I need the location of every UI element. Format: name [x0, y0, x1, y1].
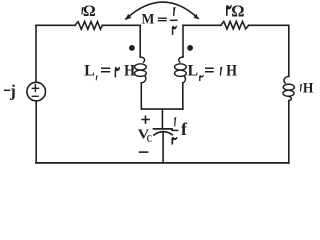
mutual coupling arc M — [126, 2, 198, 19]
wire top-left horizontal — [36, 24, 75, 26]
dot marker of L2 — [187, 45, 193, 51]
svg-text:C: C — [147, 134, 152, 145]
inductor L2 loop 1 — [175, 64, 187, 70]
label M fraction denominator 2 — [172, 25, 177, 35]
inductor L3 loop 2 — [283, 90, 294, 96]
label M fraction numerator 1 — [173, 6, 176, 16]
wire R2 to top-right corner — [249, 24, 289, 26]
source plus sign — [32, 84, 40, 92]
wire left vertical lower — [35, 101, 37, 163]
inductor L1 loop 2 — [135, 70, 147, 76]
svg-text:L: L — [84, 62, 95, 79]
label L2 subscript 2 — [199, 75, 204, 81]
svg-text:M: M — [142, 11, 155, 27]
inductor L3 right coil entry hook — [284, 76, 289, 83]
label 1ohm digit — [81, 7, 83, 15]
label right inductor value 1 — [300, 84, 302, 92]
arrowhead left of coupling arc — [125, 14, 131, 20]
capacitor fraction numerator 1 — [174, 117, 176, 127]
svg-text:L: L — [188, 62, 199, 79]
voltage source V1 circle — [27, 82, 46, 101]
label M fraction bar — [170, 19, 178, 21]
label L2 value 1 — [220, 66, 223, 75]
wire capacitor top stem — [161, 109, 163, 128]
wire bracket left vertical — [140, 83, 142, 109]
label L1 value 2 — [115, 67, 120, 78]
arrowhead right of coupling arc — [194, 14, 199, 19]
wire left vertical upper — [35, 25, 37, 82]
inductor L3 loop 1 — [283, 84, 294, 90]
inductor L2 entry hook — [179, 57, 183, 62]
svg-text:f: f — [181, 119, 187, 139]
wire bottom rail — [36, 162, 289, 164]
wire L1 top vertical — [139, 25, 141, 57]
dot marker of L1 — [129, 45, 135, 51]
wire bracket bottom bar — [141, 108, 183, 110]
inductor L3 exit hook — [289, 96, 292, 101]
svg-text:H: H — [124, 62, 135, 79]
resistor R2 zigzag — [221, 21, 249, 29]
wire capacitor bottom stem — [162, 132, 164, 163]
label L1 subscript 1 — [96, 75, 98, 80]
label M equals sign — [158, 18, 167, 21]
svg-text:Ω: Ω — [83, 3, 96, 20]
capacitor plus sign — [141, 116, 150, 124]
source minus sign — [32, 95, 39, 97]
svg-text:j: j — [9, 81, 16, 100]
capacitor C1 bottom plate curved — [154, 132, 172, 135]
svg-text:H: H — [226, 62, 237, 79]
inductor L2 loop 2 — [175, 70, 187, 76]
inductor L2 exit hook — [183, 76, 186, 83]
capacitor minus sign — [139, 151, 149, 153]
inductor L1 loop 1 — [135, 64, 147, 70]
capacitor fraction denominator 2 — [171, 137, 177, 145]
label source minus j minus stroke — [4, 89, 11, 91]
wire top-right from L2 to R2 — [183, 24, 221, 26]
resistor R1 zigzag — [75, 22, 102, 30]
wire bracket right vertical — [182, 83, 184, 109]
capacitor fraction bar — [171, 129, 178, 131]
wire from R1 to L1 top — [102, 24, 140, 26]
inductor L1 entry hook — [140, 57, 144, 62]
inductor L1 exit hook — [141, 76, 146, 83]
svg-text:Ω: Ω — [231, 1, 244, 20]
capacitor C1 top plate — [154, 128, 173, 130]
label 2ohm digit — [226, 5, 232, 16]
label L2 equals — [205, 68, 214, 71]
label L1 equals — [101, 68, 110, 71]
wire right vertical lower — [288, 101, 290, 163]
wire right vertical upper — [288, 25, 290, 76]
svg-text:H: H — [303, 80, 314, 96]
wire L2 top vertical — [182, 25, 184, 57]
